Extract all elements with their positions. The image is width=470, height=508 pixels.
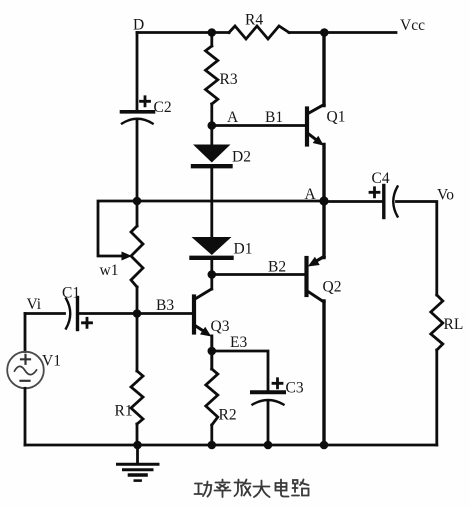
svg-text:Vi: Vi [27, 296, 42, 313]
wire top rail left segment (D node to R4) [137, 31, 229, 34]
wire mid rail (w1 top to node A) [137, 200, 324, 203]
wire Vi input [25, 312, 65, 315]
capacitor C3 [252, 379, 284, 405]
svg-text:C1: C1 [62, 285, 80, 302]
wire Q2 collector down to ground rail [322, 301, 325, 445]
node junction B3 [133, 309, 142, 318]
wire Q2 base [212, 273, 305, 276]
potentiometer w1 [122, 226, 144, 287]
wire R3 to node A1 [210, 104, 213, 126]
wire V1 top lead [24, 314, 27, 352]
capacitor C2 [122, 97, 154, 124]
resistor R3 [206, 46, 218, 104]
svg-text:D2: D2 [232, 149, 251, 166]
node junction B2 branch [208, 270, 217, 279]
resistor R1 [131, 371, 143, 424]
svg-text:A: A [305, 186, 317, 203]
svg-text:D: D [133, 17, 144, 34]
svg-text:B2: B2 [268, 259, 286, 276]
node junction E3 [208, 347, 217, 356]
caption 功率放大电路 (hand-drawn strokes) [195, 480, 309, 498]
svg-text:C3: C3 [286, 380, 304, 397]
wire C4 to Vo corner [397, 202, 437, 296]
svg-text:R1: R1 [115, 403, 133, 420]
transistor Q2 [307, 257, 325, 303]
wire node A to C4 [324, 200, 382, 203]
wire R1 to ground rail [136, 424, 139, 445]
source V1 [7, 352, 44, 389]
svg-text:Vo: Vo [437, 187, 454, 204]
node A junction (output node) [319, 196, 328, 205]
wire Q1 base [212, 124, 306, 127]
wire C1 to node B3 [79, 312, 137, 315]
wire E3 branch to C3 [212, 351, 268, 390]
wire Q1 collector up to top rail [322, 33, 325, 106]
wire top rail right segment (R4 to Vcc) [289, 31, 396, 34]
capacitor C1 [66, 298, 92, 330]
wire C2 to mid-rail [136, 121, 139, 201]
diode D1 [192, 237, 232, 258]
node A (R3/D2/base of Q1) [208, 121, 217, 130]
svg-text:V1: V1 [42, 353, 61, 370]
wire D branch down to C2 [136, 33, 139, 111]
wire B3 to Q3 base [137, 312, 193, 315]
wire B3 to R1 [136, 314, 139, 372]
ground symbol [118, 445, 159, 481]
transistor Q3 [194, 289, 212, 337]
node junction R2/ground rail [208, 441, 217, 450]
node junction top-right of R4 [320, 28, 329, 37]
svg-text:R4: R4 [245, 12, 263, 29]
resistor R2 [206, 369, 218, 425]
wire D1 to node B2 [210, 258, 213, 289]
wire ground rail [25, 444, 437, 447]
transistor Q1 [307, 105, 324, 146]
capacitor C4 [370, 186, 398, 218]
node junction w1 top [133, 197, 142, 206]
wire w1 top lead [136, 201, 139, 226]
svg-text:C4: C4 [372, 170, 390, 187]
svg-text:Q1: Q1 [327, 109, 346, 126]
wire R3 branch top [210, 33, 213, 47]
wire w1 bottom to node B3 [136, 287, 139, 314]
wire D2 to D1 [210, 166, 213, 238]
svg-text:w1: w1 [100, 262, 119, 279]
svg-text:Q3: Q3 [211, 318, 230, 335]
wire R2 to ground rail [210, 425, 213, 445]
svg-text:C2: C2 [154, 99, 172, 116]
wire Q1 emitter down to node A [322, 145, 325, 258]
wire C3 to ground rail [267, 402, 270, 445]
svg-text:E3: E3 [230, 334, 247, 351]
node junction top-left of R4 [208, 28, 217, 37]
wire RL to bottom right corner [435, 350, 438, 445]
wire D2 top lead [210, 126, 213, 146]
node junction R1/ground rail [133, 441, 142, 450]
svg-text:B1: B1 [265, 109, 283, 126]
wire wiper loop of w1 [98, 201, 137, 256]
svg-text:A: A [227, 109, 239, 126]
node junction C3/ground rail [264, 441, 273, 450]
resistor RL [431, 295, 443, 350]
svg-text:RL: RL [444, 316, 464, 333]
diode D2 [193, 145, 231, 167]
node junction Q2 collector/ground rail [320, 441, 329, 450]
svg-text:R2: R2 [219, 407, 237, 424]
svg-text:Vcc: Vcc [400, 17, 425, 34]
wire V1 bottom lead [24, 388, 27, 445]
resistor R4 [229, 26, 289, 39]
svg-text:B3: B3 [156, 297, 174, 314]
wire Q3 emitter down to node E3 [210, 336, 213, 369]
svg-text:D1: D1 [234, 241, 253, 258]
svg-text:Q2: Q2 [323, 279, 342, 296]
svg-text:R3: R3 [220, 71, 238, 88]
